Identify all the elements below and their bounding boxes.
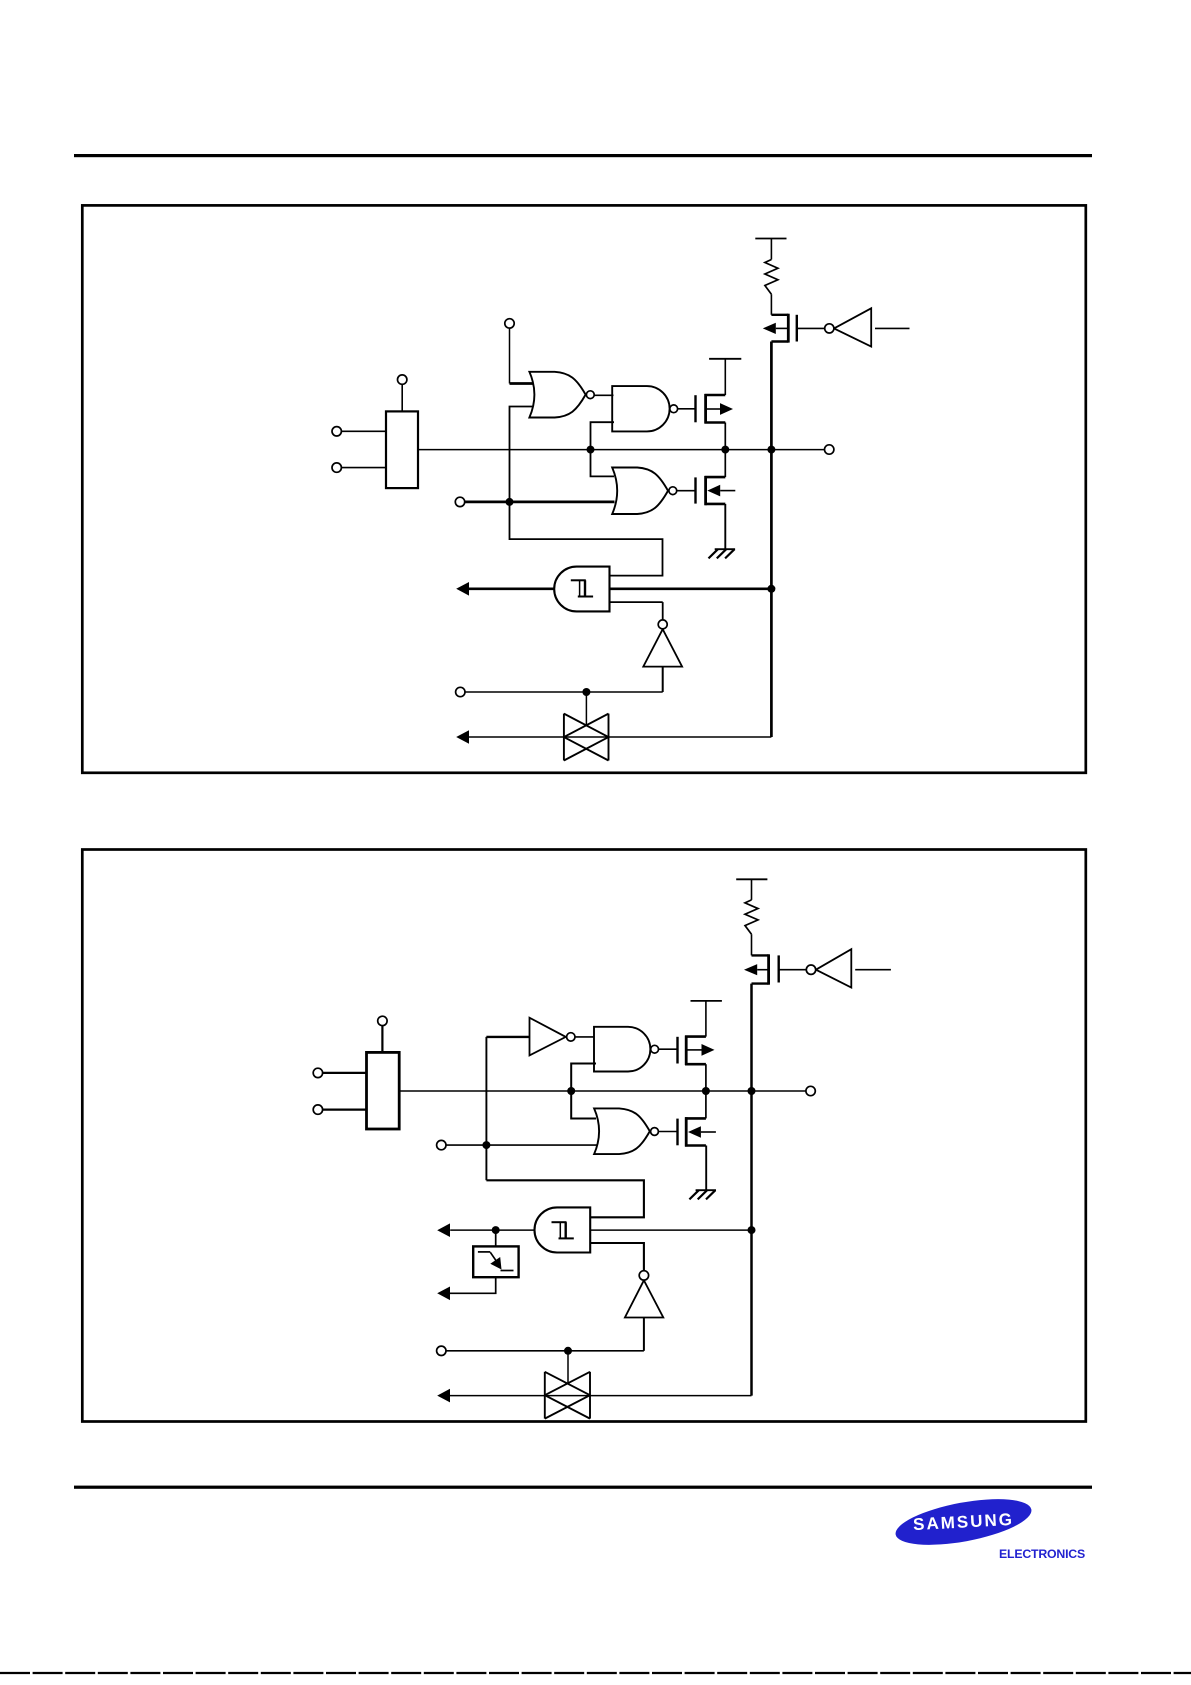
svg-text:ELECTRONICS: ELECTRONICS <box>999 1547 1085 1561</box>
